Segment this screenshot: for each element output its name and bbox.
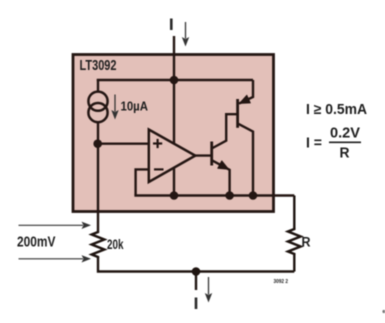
svg-text:0.2V: 0.2V <box>330 126 360 142</box>
wire SET pin down out of box <box>97 144 99 231</box>
node top junction <box>170 76 179 85</box>
svg-text:10µA: 10µA <box>121 99 149 114</box>
svg-text:I =: I = <box>306 136 322 152</box>
arrow 200mV bottom <box>19 255 92 262</box>
svg-text:I ≥ 0.5mA: I ≥ 0.5mA <box>306 102 367 118</box>
node Q2 collector on rail <box>249 191 258 200</box>
op-amp U1 <box>149 130 196 183</box>
plus sign <box>153 139 162 148</box>
svg-text:LT3092: LT3092 <box>80 58 117 74</box>
label I (top) <box>170 19 173 31</box>
wire R bottom to bottom wire <box>293 255 295 272</box>
wire inner top horizontal <box>97 79 253 81</box>
arrow Q2 emitter <box>240 95 251 103</box>
wire top input vertical (I in) through box to bottom rail <box>173 36 175 196</box>
transistor Q2 (PNP) <box>238 80 253 196</box>
speck bottom-right <box>382 310 385 313</box>
arrow Q1 emitter <box>218 161 229 169</box>
transistor Q1 (NPN) <box>195 114 238 195</box>
node SET junction <box>93 139 102 148</box>
fraction bar <box>329 141 361 143</box>
svg-text:R: R <box>302 235 311 250</box>
arrow I in (down) <box>182 22 189 47</box>
label I (bottom) <box>195 298 198 310</box>
resistor 20k (vertical zigzag) <box>92 231 105 259</box>
wire noninverting input <box>97 142 149 144</box>
node rail-center <box>170 191 179 200</box>
svg-text:200mV: 200mV <box>17 235 56 251</box>
svg-text:3092 2: 3092 2 <box>274 279 289 285</box>
arrow I out (down) <box>205 277 212 303</box>
minus sign <box>154 168 164 170</box>
svg-text:20k: 20k <box>107 237 124 252</box>
svg-text:R: R <box>340 146 350 162</box>
arrow 10uA (down) <box>111 95 118 120</box>
current source I1 10uA <box>88 92 107 123</box>
node Q1 emitter on rail <box>225 191 234 200</box>
resistor R (vertical zigzag) <box>288 228 301 256</box>
wire bottom rail <box>134 194 294 196</box>
arrow 200mV top <box>19 222 92 229</box>
wire output stub down <box>195 272 197 291</box>
wire feedback from inverting input <box>136 169 150 195</box>
wire 20k bottom to bottom wire <box>98 258 294 272</box>
IC body LT3092 <box>73 55 274 212</box>
node output junction <box>192 267 201 276</box>
wire current source bottom to node <box>97 122 99 145</box>
wire current source top <box>97 79 99 92</box>
wire load branch from rail to R <box>293 196 295 228</box>
